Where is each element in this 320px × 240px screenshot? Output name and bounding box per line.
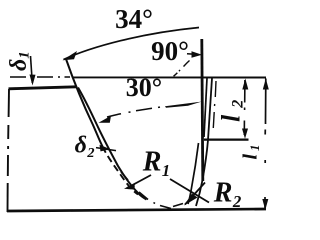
right face dash-dot: [213, 81, 216, 128]
top-left horizontal dash-dot line: [10, 76, 70, 78]
30 arc right arrowhead: [165, 102, 202, 108]
svg-text:R₂: R₂: [213, 178, 242, 209]
svg-text:30°: 30°: [126, 73, 162, 102]
l2 bottom arrowhead: [242, 129, 248, 139]
right face line below step: [188, 143, 199, 204]
bevel face line 1 lower (eroded/dashed in scan): [103, 147, 139, 195]
30 arc left arrowhead: [99, 116, 112, 123]
svg-text:90°: 90°: [151, 36, 189, 66]
svg-text:δ₂: δ₂: [75, 133, 96, 159]
svg-text:δ1: δ1: [6, 51, 33, 71]
delta1 arrow shaft: [31, 56, 33, 83]
R1 leader: [127, 175, 151, 188]
root dash-dot line left: [121, 172, 171, 209]
root dash-dot line right: [173, 201, 190, 207]
svg-text:l1: l1: [240, 141, 263, 159]
step (shoulder) line: [204, 139, 249, 141]
svg-text:34°: 34°: [115, 4, 153, 34]
bottom edge: [7, 209, 266, 211]
R2 leader stroke 2 with arrowhead: [185, 183, 205, 205]
l1 bottom arrowhead: [262, 199, 268, 210]
bevel face line 1 (outer, curved): [66, 59, 103, 147]
R1 arrowhead: [124, 183, 136, 190]
bevel face line 2 (inner, curved): [78, 88, 147, 200]
R2 leader stroke 1: [170, 179, 209, 203]
delta2 leader arrow: [96, 148, 116, 151]
svg-text:R₁: R₁: [142, 147, 171, 178]
34 arc arrowhead: [63, 51, 78, 60]
left plate top edge: [9, 87, 77, 89]
right face line A: [204, 78, 207, 137]
l2 dimension line: [243, 80, 246, 135]
90 degree dash-dot arc: [174, 61, 190, 77]
l1 dimension line + corner from top line: [264, 79, 267, 209]
30 degree dash-dot arc: [107, 107, 160, 117]
90 degree leader arrow: [187, 53, 197, 56]
right plate vertical line: [202, 39, 203, 181]
l1 top arrowhead: [263, 79, 269, 90]
long horizontal top line: [73, 76, 266, 78]
left plate left edge (dash-dot): [8, 89, 10, 212]
l2 top arrowhead: [242, 79, 248, 90]
right face line B: [196, 78, 212, 206]
delta1 arrowhead: [30, 75, 36, 86]
34 degree arc: [64, 28, 200, 60]
svg-text:l2: l2: [217, 93, 247, 122]
